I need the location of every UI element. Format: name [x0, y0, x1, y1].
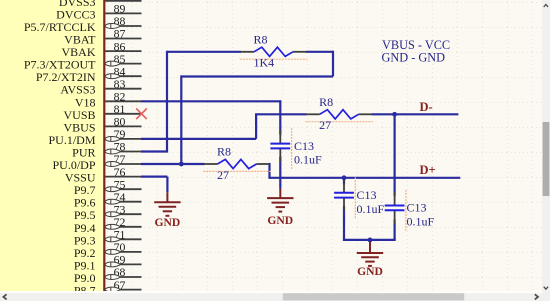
svg-text:27: 27	[217, 168, 229, 182]
wire DM rise	[255, 114, 257, 139]
svg-text:GND: GND	[267, 214, 293, 227]
svg-text:D-: D-	[420, 100, 433, 114]
pin 74 (P9.6)	[74, 190, 142, 210]
pin 72 (P9.4)	[74, 215, 142, 235]
power port GND	[154, 192, 180, 229]
wire V18 down to cap C13a	[279, 100, 281, 134]
wire DP corner down	[268, 163, 270, 178]
error line C13	[354, 177, 356, 219]
svg-text:R8: R8	[254, 33, 268, 47]
pin 83 (AVSS3)	[60, 77, 141, 97]
error line C13	[291, 128, 293, 170]
wire C13b top stub	[343, 178, 345, 185]
wire top loop right vertical	[332, 51, 334, 77]
svg-text:GND - GND: GND - GND	[382, 50, 446, 64]
wire PUR vertical	[166, 51, 168, 152]
pin 68 (P9.0)	[74, 265, 142, 285]
pin 67 (P8.7)	[74, 278, 142, 298]
svg-text:GND: GND	[357, 265, 383, 278]
wire vertical to PU.0/DP	[180, 75, 182, 164]
svg-text:C13: C13	[357, 188, 377, 202]
svg-text:0.1uF: 0.1uF	[407, 215, 435, 229]
resistor R8 27	[305, 95, 372, 132]
pin 87 (VBAT)	[64, 27, 141, 47]
svg-text:C13: C13	[294, 139, 314, 153]
capacitor C13 0.1uF	[334, 177, 384, 219]
pin 78 (PUR)	[72, 140, 141, 160]
pin 79 (PU.1/DM)	[48, 127, 141, 147]
wire D- down to cap C13c	[394, 114, 396, 196]
svg-text:0.1uF: 0.1uF	[357, 202, 385, 216]
wire C13a to GND	[279, 157, 281, 189]
svg-text:0.1uF: 0.1uF	[294, 153, 322, 167]
svg-text:1K4: 1K4	[254, 56, 275, 70]
no-ERC cross on pin 81 (VUSB)	[136, 109, 147, 120]
power port GND	[357, 240, 383, 278]
pin 86 (VBAK)	[61, 39, 141, 59]
IC U1 body (MCU, partial)	[0, 0, 104, 291]
wire D+ horizontal	[268, 177, 460, 179]
pin 73 (P9.5)	[74, 202, 142, 222]
wire top loop return	[181, 75, 333, 77]
resistor R8 27	[203, 145, 270, 182]
error line C13	[405, 190, 407, 232]
resistor R8 1K4	[240, 33, 307, 70]
wire C13c bottom to bus	[394, 220, 396, 240]
pin 69 (P9.1)	[74, 253, 142, 273]
horizontal scrollbar	[0, 291, 542, 301]
wire PUR pin stub	[141, 150, 168, 152]
junction	[392, 112, 397, 117]
vertical scrollbar	[542, 0, 550, 301]
junction	[368, 238, 373, 243]
pin 90 (DVSS3)	[59, 0, 142, 9]
pin 81 (VUSB)	[63, 102, 141, 122]
power port GND	[267, 189, 293, 228]
pin 85 (P7.3/XT2OUT)	[24, 52, 142, 72]
wire bottom cap bus	[343, 239, 396, 241]
svg-text:D+: D+	[420, 163, 436, 177]
pin 89 (DVCC3)	[56, 2, 141, 22]
pin 80 (VBUS)	[63, 115, 141, 135]
wire C13b bottom to bus	[343, 206, 345, 240]
svg-text:C13: C13	[407, 201, 427, 215]
capacitor C13 0.1uF	[385, 190, 435, 232]
pin 71 (P9.3)	[74, 228, 142, 248]
wire D- out of R8	[372, 113, 459, 115]
junction	[179, 162, 184, 167]
wire VSSU down to GND	[166, 177, 168, 193]
pin 88 (P5.7/RTCCLK)	[24, 14, 142, 34]
svg-text:27: 27	[319, 118, 331, 132]
pin 84 (P7.2/XT2IN)	[36, 64, 142, 84]
wire PUR top loop top	[167, 51, 241, 53]
error underline R8	[203, 170, 270, 172]
wire top loop R8 out to right	[306, 51, 333, 53]
capacitor C13 0.1uF	[270, 128, 322, 170]
junction	[342, 175, 347, 180]
svg-text:GND: GND	[155, 216, 181, 229]
pin 77 (PU.0/DP)	[52, 152, 141, 172]
wire D- into R8	[255, 113, 307, 115]
pin 75 (P9.7)	[74, 177, 142, 197]
pin 82 (V18)	[75, 90, 142, 110]
pin 76 (VSSU)	[65, 165, 142, 185]
error underline R8	[305, 121, 372, 123]
wire V18 horizontal	[141, 100, 280, 102]
pin 70 (P9.2)	[74, 240, 142, 260]
svg-text:R8: R8	[217, 145, 231, 159]
wire PU.1/DM horizontal	[141, 138, 256, 140]
svg-text:R8: R8	[319, 95, 333, 109]
wire PU.0/DP horizontal	[141, 163, 205, 165]
wire VSSU stub	[141, 176, 167, 178]
error underline R8	[240, 58, 307, 60]
